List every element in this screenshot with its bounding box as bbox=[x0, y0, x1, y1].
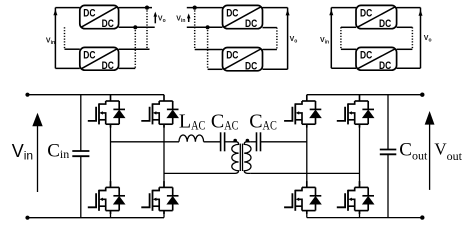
capacitor C_out bbox=[387, 95, 389, 150]
svg-text:DC: DC bbox=[379, 18, 391, 30]
transistor Q3 (left bridge, right leg, top) bbox=[141, 95, 179, 128]
arrowhead V_o bbox=[286, 9, 290, 15]
svg-text:DC: DC bbox=[83, 49, 95, 61]
wire dotted input parallel 1 bbox=[194, 8, 196, 50]
svg-text:DC: DC bbox=[360, 8, 372, 20]
wire bbox=[208, 68, 223, 70]
wire left bridge bottom stubs bbox=[110, 211, 112, 218]
wire dotted output series bbox=[276, 28, 278, 50]
wire bbox=[55, 7, 79, 9]
svg-text:Cin: Cin bbox=[47, 140, 69, 161]
transistor Q7 (right bridge, right leg, top) bbox=[337, 95, 375, 128]
svg-text:Vin: Vin bbox=[46, 37, 55, 46]
transistor Q2 (left bridge, left leg, bottom) bbox=[88, 181, 126, 214]
wire node A to inductor bbox=[111, 141, 180, 143]
svg-text:DC: DC bbox=[245, 60, 257, 72]
arrowhead V_in bbox=[329, 9, 333, 15]
svg-text:Cout: Cout bbox=[399, 139, 428, 162]
wire dotted output parallel 1 bbox=[146, 8, 148, 50]
wire bbox=[331, 7, 356, 9]
transformer T1 primary winding bbox=[232, 142, 239, 174]
svg-text:DC: DC bbox=[102, 60, 114, 72]
svg-text:DC: DC bbox=[245, 18, 257, 30]
wire bbox=[119, 26, 155, 28]
svg-text:Vin: Vin bbox=[12, 141, 33, 163]
wire bbox=[250, 141, 256, 143]
transformer polarity dot primary bbox=[233, 139, 237, 143]
arrow V_out bbox=[429, 123, 431, 190]
wire bbox=[341, 26, 356, 28]
transformer polarity dot secondary bbox=[246, 139, 250, 143]
wire bbox=[397, 48, 413, 50]
wire top rail right bbox=[307, 94, 423, 96]
svg-text:DC: DC bbox=[226, 8, 238, 20]
node V_in line bbox=[330, 8, 332, 69]
svg-text:Vo: Vo bbox=[290, 36, 298, 45]
transistor Q1 (left bridge, left leg, top) bbox=[88, 95, 126, 128]
wire right bridge bottom stubs bbox=[306, 211, 308, 218]
output node dot bottom bbox=[420, 215, 424, 219]
svg-text:CAC: CAC bbox=[211, 111, 239, 133]
wire node B (primary return) bbox=[164, 172, 233, 174]
svg-text:Vo: Vo bbox=[158, 16, 166, 25]
svg-text:CAC: CAC bbox=[249, 111, 277, 133]
wire dotted input series bbox=[64, 27, 66, 49]
svg-text:DC: DC bbox=[83, 8, 95, 20]
wire bbox=[263, 7, 288, 9]
wire right bridge left leg bbox=[306, 124, 308, 187]
wire bottom rail right bbox=[307, 217, 423, 219]
wire bottom rail left bbox=[28, 217, 165, 219]
wire secondary return bbox=[250, 172, 359, 174]
arrowhead V_o bbox=[419, 10, 423, 16]
svg-text:DC: DC bbox=[102, 18, 114, 30]
wire bbox=[187, 7, 223, 9]
inductor L_AC bbox=[179, 135, 204, 142]
arrow V_in bbox=[188, 15, 190, 22]
arrow V_o bbox=[154, 13, 156, 23]
arrow V_in bbox=[37, 124, 39, 192]
wire bbox=[397, 26, 413, 28]
wire bbox=[119, 48, 150, 50]
svg-text:Vout: Vout bbox=[434, 140, 462, 164]
transformer T1 secondary winding bbox=[244, 142, 251, 174]
input node dot bottom bbox=[25, 216, 29, 220]
svg-text:DC: DC bbox=[226, 50, 238, 62]
wire bbox=[263, 49, 277, 51]
capacitor C_AC secondary bbox=[256, 132, 258, 151]
converter block 1 bbox=[80, 5, 119, 28]
wire top rail left bbox=[28, 94, 165, 96]
converter block 2 bbox=[223, 48, 263, 71]
wire bbox=[187, 26, 223, 28]
wire bbox=[397, 7, 421, 9]
node dot bbox=[206, 25, 210, 29]
wire bbox=[55, 67, 79, 69]
wire dotted output series bbox=[411, 27, 413, 49]
wire left bridge right leg bbox=[163, 124, 165, 187]
svg-text:Vo: Vo bbox=[424, 35, 432, 44]
wire dotted output parallel 2 bbox=[134, 27, 136, 68]
wire bbox=[119, 7, 152, 9]
converter block 2 bbox=[356, 47, 397, 70]
wire bbox=[65, 48, 80, 50]
wire right bridge right leg bbox=[359, 124, 361, 187]
wire bbox=[195, 49, 223, 51]
node V_o line bbox=[420, 8, 422, 69]
transistor Q5 (right bridge, left leg, top) bbox=[284, 95, 322, 128]
wire dotted input series bbox=[340, 27, 342, 49]
input node dot top bbox=[25, 93, 29, 97]
node dot bbox=[145, 6, 149, 10]
converter block 2 bbox=[80, 47, 119, 70]
arrowhead V_in bbox=[53, 9, 57, 15]
capacitor C_in bbox=[80, 95, 82, 151]
wire to right bridge bbox=[261, 141, 307, 143]
svg-text:LAC: LAC bbox=[179, 111, 206, 133]
transformer core bbox=[239, 144, 241, 171]
svg-text:DC: DC bbox=[360, 49, 372, 61]
wire bbox=[397, 67, 421, 69]
wire bbox=[331, 67, 356, 69]
transistor Q8 (right bridge, right leg, bottom) bbox=[337, 181, 375, 214]
wire bbox=[119, 67, 136, 69]
wire bbox=[341, 48, 356, 50]
svg-text:Vin: Vin bbox=[176, 15, 185, 24]
wire bbox=[263, 27, 277, 29]
wire bbox=[204, 141, 221, 143]
capacitor C_AC primary bbox=[220, 132, 222, 151]
node dot bbox=[133, 25, 137, 29]
node V_in line bbox=[54, 8, 56, 69]
wire left bridge left leg bbox=[110, 124, 112, 187]
node dot bbox=[193, 6, 197, 10]
converter block 1 bbox=[356, 5, 397, 28]
svg-text:DC: DC bbox=[379, 60, 391, 72]
transistor Q4 (left bridge, right leg, bottom) bbox=[141, 181, 179, 214]
converter block 1 bbox=[223, 5, 263, 28]
output node dot top bbox=[420, 93, 424, 97]
transistor Q6 (right bridge, left leg, bottom) bbox=[284, 181, 322, 214]
svg-text:Vin: Vin bbox=[320, 37, 329, 46]
node V_o line bbox=[287, 8, 289, 70]
wire bbox=[225, 141, 233, 143]
wire bbox=[263, 68, 288, 70]
wire dotted input parallel 2 bbox=[207, 27, 209, 69]
